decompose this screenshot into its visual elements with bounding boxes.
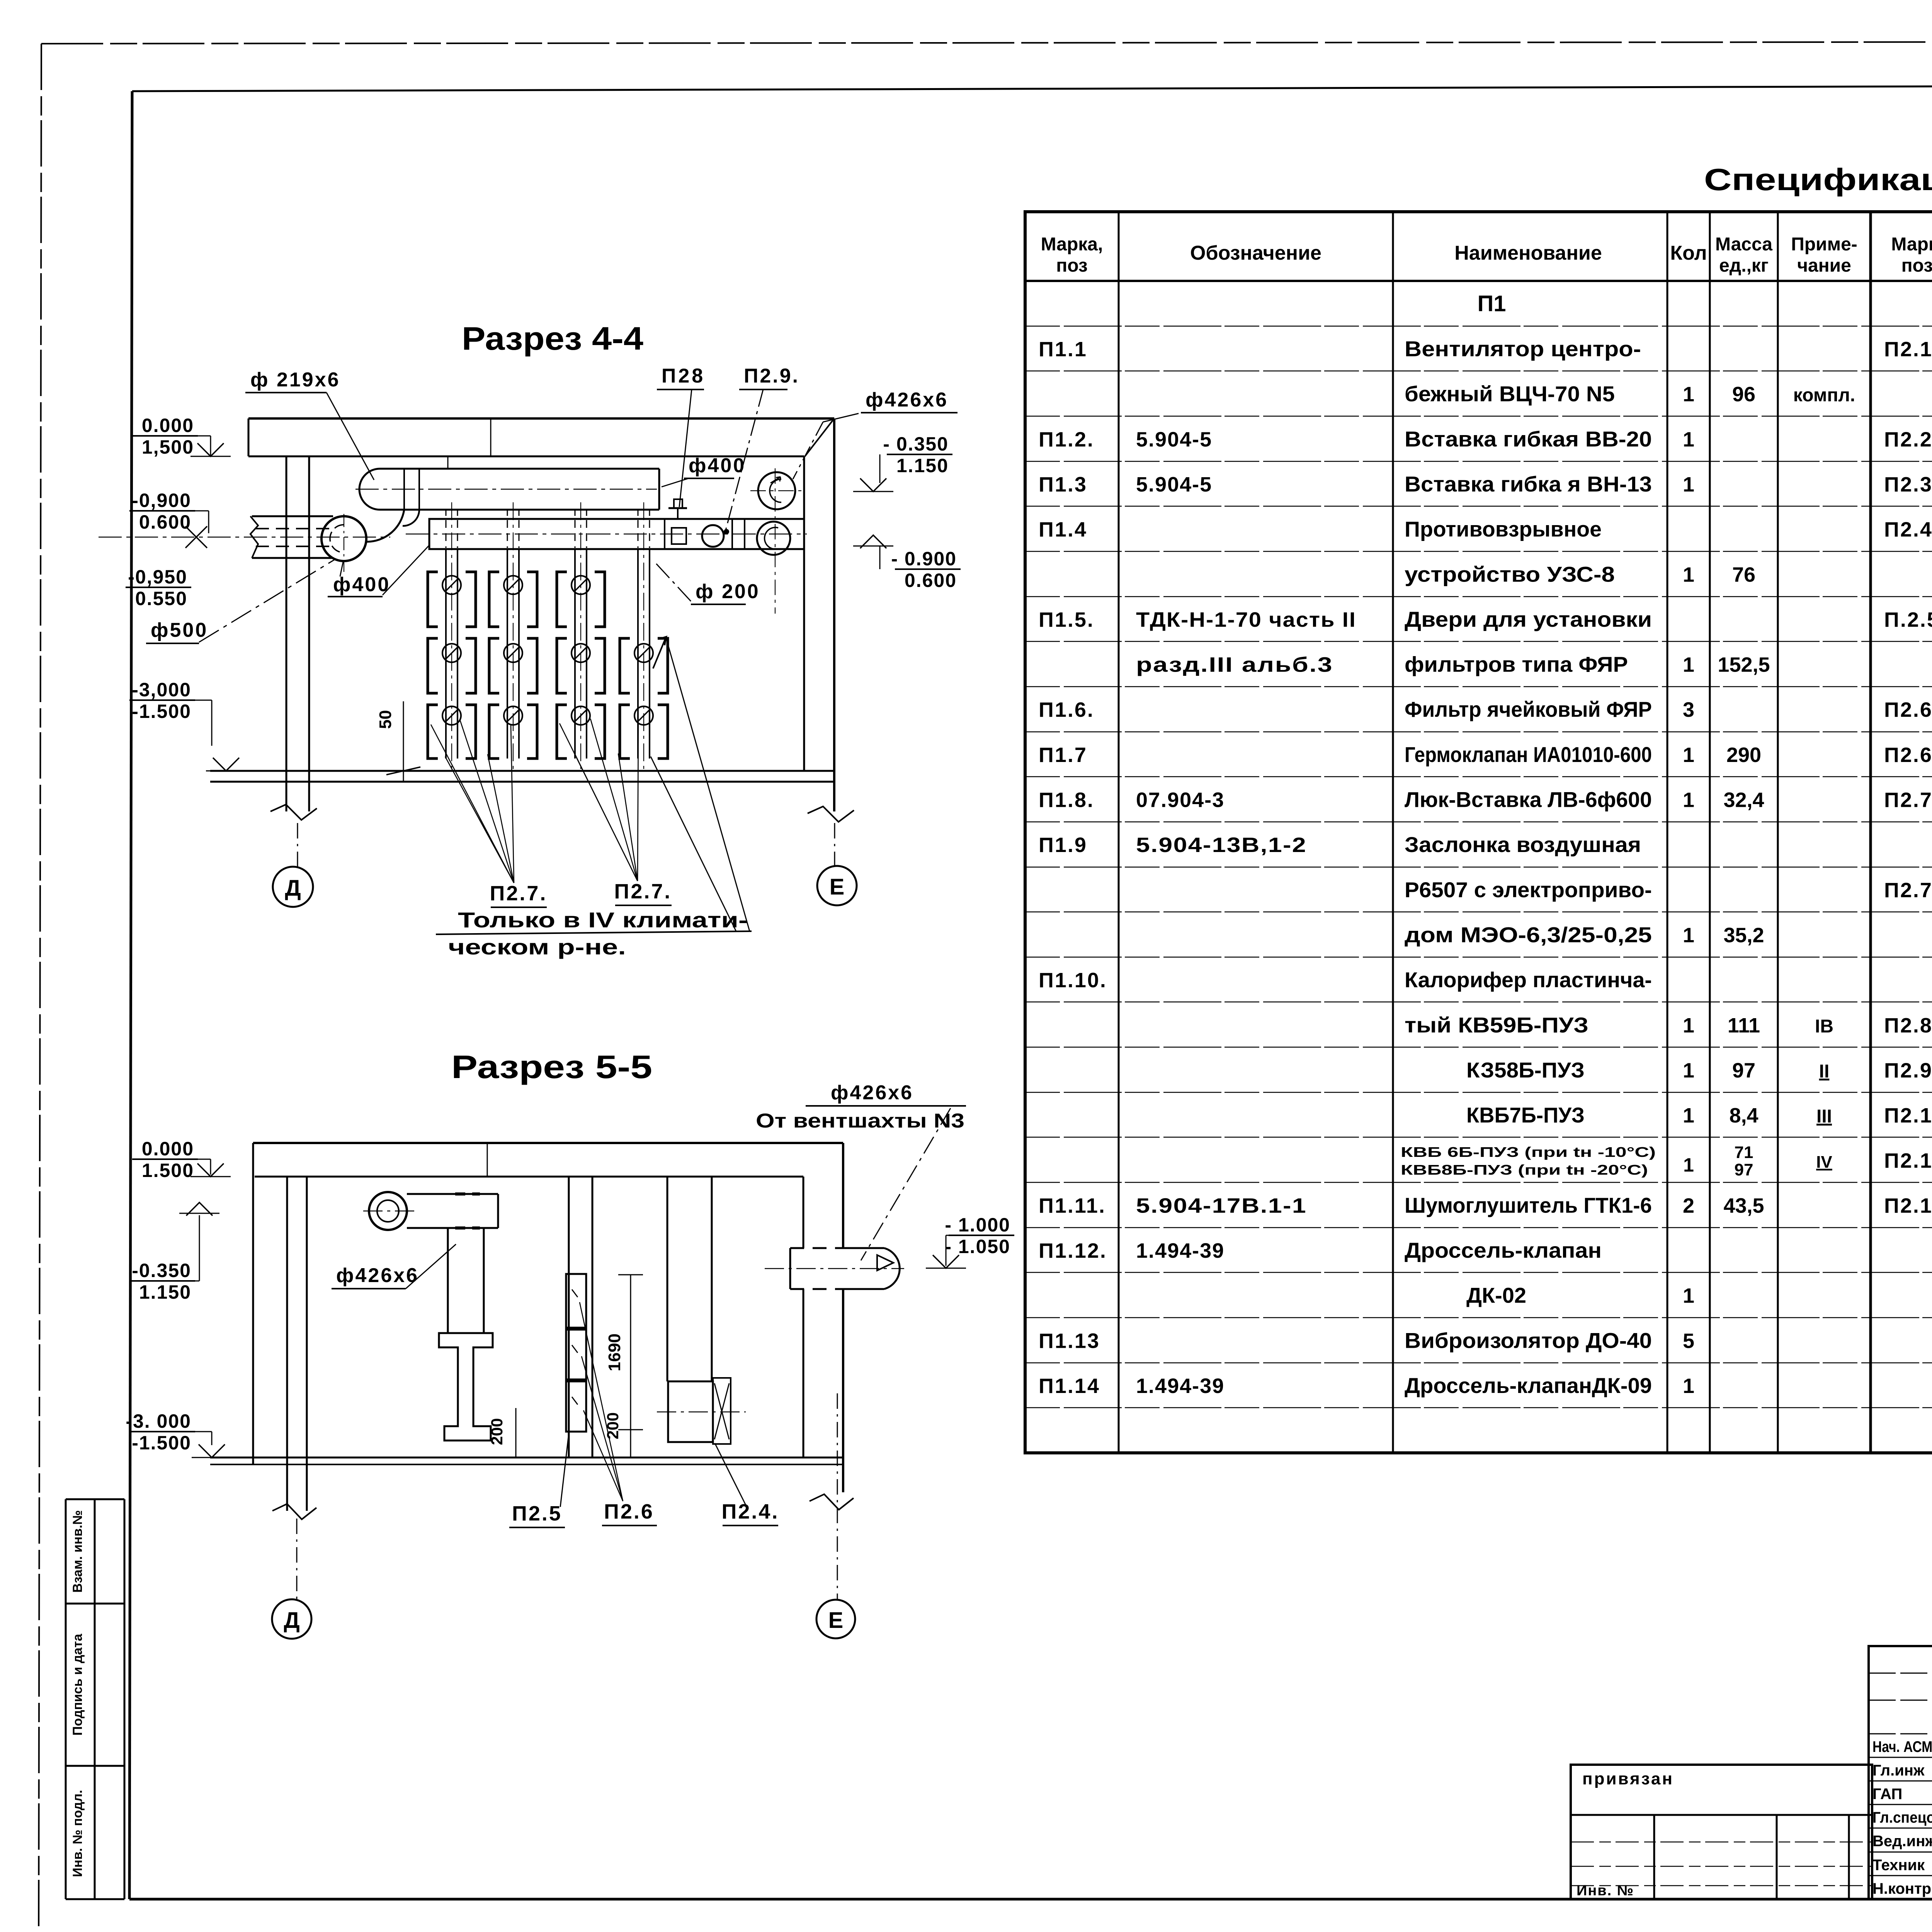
svg-text:1: 1 [1683,923,1694,947]
svg-text:ф426х6: ф426х6 [831,1082,913,1104]
svg-text:2: 2 [1683,1194,1694,1217]
svg-text:Вставка гибкая ВВ-20: Вставка гибкая ВВ-20 [1405,427,1652,451]
s55 right column break symbol [810,1494,854,1510]
svg-text:Разрез 5-5: Разрез 5-5 [451,1049,652,1085]
svg-text:П1.6.: П1.6. [1039,698,1094,721]
page number box line [132,84,1932,91]
svg-text:Спецификация: Спецификация [1704,162,1932,197]
svg-text:ф 200: ф 200 [696,580,760,603]
svg-text:устройство УЗС-8: устройство УЗС-8 [1405,562,1615,586]
svg-text:П1.2.: П1.2. [1039,428,1094,451]
svg-text:Р6507 с электроприво-: Р6507 с электроприво- [1405,878,1652,902]
inner frame bottom [129,1898,1932,1901]
privyazan table [1571,1765,1872,1899]
svg-text:КВБ7Б-ПУЗ: КВБ7Б-ПУЗ [1466,1103,1585,1127]
svg-text:Вед.инж: Вед.инж [1872,1833,1932,1850]
svg-text:Н.контр.: Н.контр. [1872,1880,1932,1897]
svg-text:1: 1 [1683,1284,1694,1308]
svg-text:П2.8.: П2.8. [1884,1014,1932,1037]
svg-text:0.000: 0.000 [142,1138,194,1160]
svg-text:-1.500: -1.500 [132,701,191,722]
svg-text:П1.14: П1.14 [1039,1374,1100,1398]
svg-text:Техник: Техник [1872,1857,1925,1874]
svg-text:П2.6.: П2.6. [1884,698,1932,721]
s44 main collector duct [429,519,804,549]
svg-text:ф400: ф400 [333,573,390,596]
svg-text:71: 71 [1735,1143,1753,1162]
s44 damper valve handle [677,508,679,519]
s55 fan centerline [363,1211,417,1212]
s44 right lower circle duct ф426 [757,522,790,555]
svg-text:П1.9: П1.9 [1039,833,1087,857]
svg-text:П1.4: П1.4 [1039,518,1087,541]
svg-text:Е: Е [828,1608,844,1633]
svg-text:43,5: 43,5 [1723,1194,1764,1217]
svg-text:Е: Е [830,874,845,900]
svg-text:П2.7.: П2.7. [614,880,672,903]
svg-text:-1.500: -1.500 [132,1432,191,1454]
s44 inlet flange circle [321,516,366,561]
svg-text:П2.10.: П2.10. [1884,1104,1932,1127]
s44 ceiling joint tick [490,418,492,456]
s44 left inlet duct ф500 [252,515,333,517]
svg-text:поз.: поз. [1901,255,1932,276]
svg-text:1690: 1690 [605,1333,624,1371]
svg-text:П1.5.: П1.5. [1039,608,1094,631]
s44 top duct [380,468,659,470]
svg-text:П2.12: П2.12 [1884,1194,1932,1217]
svg-text:35,2: 35,2 [1723,923,1764,947]
s44 elbow [366,510,404,542]
svg-text:32,4: 32,4 [1723,789,1764,812]
sheet outer border top [41,41,1932,44]
s55 right wall inner [803,1177,804,1248]
s55 fan scroll rect [407,1193,498,1195]
svg-text:IV: IV [1816,1153,1832,1172]
svg-text:111: 111 [1728,1014,1760,1037]
svg-text:бежный ВЦЧ-70 N5: бежный ВЦЧ-70 N5 [1405,382,1615,406]
svg-text:Только в IV климати-: Только в IV климати- [458,908,748,932]
svg-text:1.500: 1.500 [142,1160,194,1181]
svg-text:КВБ8Б-ПУЗ (при tн -20°С): КВБ8Б-ПУЗ (при tн -20°С) [1401,1162,1648,1178]
spec table row lines [1025,326,1932,327]
s44 left column break symbol [270,804,317,820]
inner frame left [129,91,132,1899]
svg-text:П.2.5: П.2.5 [1884,608,1932,631]
signature table frame [1869,1646,1932,1899]
svg-text:дом МЭО-6,3/25-0,25: дом МЭО-6,3/25-0,25 [1405,922,1652,947]
svg-text:П1.8.: П1.8. [1039,789,1094,812]
svg-text:ДК-02: ДК-02 [1466,1283,1526,1308]
svg-text:Наименование: Наименование [1454,242,1602,264]
svg-text:5.904-17В.1-1: 5.904-17В.1-1 [1136,1194,1307,1217]
s44 right upper circle duct ф426 [758,472,795,509]
svg-text:1: 1 [1683,1374,1694,1398]
s55 axis circle Д [272,1599,311,1639]
left strip boxes [65,1499,67,1899]
svg-text:разд.III альб.3: разд.III альб.3 [1136,653,1333,677]
svg-text:1: 1 [1683,383,1694,406]
svg-text:07.904-3: 07.904-3 [1136,789,1225,812]
spec table outer border [1025,212,1932,1453]
svg-text:Марка: Марка [1891,234,1932,255]
svg-text:-3,000: -3,000 [132,679,191,701]
svg-text:ф 219х6: ф 219х6 [250,369,340,391]
s55 right wall outer [842,1143,844,1248]
spec table header separator [1025,280,1932,282]
svg-text:ГАП: ГАП [1872,1786,1902,1803]
svg-text:П1.7: П1.7 [1039,743,1087,767]
svg-text:От вентшахты N3: От вентшахты N3 [756,1110,964,1132]
svg-text:П28: П28 [662,365,705,387]
svg-text:1: 1 [1683,428,1694,451]
svg-text:компл.: компл. [1793,385,1855,406]
svg-text:фильтров типа ФЯР: фильтров типа ФЯР [1405,652,1628,677]
svg-text:- 1.050: - 1.050 [945,1236,1010,1257]
svg-text:Дроссель-клапан: Дроссель-клапан [1405,1238,1602,1262]
svg-text:Дроссель-клапанДК-09: Дроссель-клапанДК-09 [1405,1373,1652,1398]
svg-text:Кол: Кол [1670,242,1707,264]
svg-text:П1.1: П1.1 [1039,338,1087,361]
s44 ceiling slab bottom [248,456,804,457]
svg-text:П1.10.: П1.10. [1039,969,1107,992]
svg-text:Шумоглушитель ГТК1-6: Шумоглушитель ГТК1-6 [1405,1193,1652,1217]
s44 right wall outer [833,418,835,811]
svg-text:П2.7.: П2.7. [490,882,548,905]
s55 fan inlet flange circle [369,1192,407,1230]
svg-text:- 1.000: - 1.000 [945,1214,1010,1236]
s55 floor lines [210,1457,843,1459]
s44 leader to col4 [666,638,750,931]
s44 inlet duct centerline [99,537,390,538]
spec table column lines [1118,212,1120,1453]
svg-text:П2.9: П2.9 [1884,1059,1932,1082]
svg-text:ф426х6: ф426х6 [336,1264,419,1287]
svg-text:5.904-5: 5.904-5 [1136,428,1212,451]
s44 filter flow circles [442,576,461,594]
s44 right column break symbol [808,806,854,822]
s55 ceiling top [253,1142,843,1144]
svg-text:Д: Д [285,876,301,901]
svg-text:1.494-39: 1.494-39 [1136,1239,1225,1262]
svg-text:1: 1 [1683,473,1694,496]
s44 filter columns ducts [445,549,447,759]
svg-text:152,5: 152,5 [1718,653,1770,677]
svg-text:привязан: привязан [1582,1769,1674,1788]
svg-text:Вставка гибка я ВН-13: Вставка гибка я ВН-13 [1405,472,1652,496]
svg-text:1.494-39: 1.494-39 [1136,1374,1225,1398]
svg-text:1: 1 [1683,1059,1694,1082]
svg-text:ф400: ф400 [689,454,746,477]
svg-text:-0,900: -0,900 [132,490,191,511]
svg-text:П2.4: П2.4 [1884,518,1932,541]
svg-text:290: 290 [1726,743,1761,767]
svg-text:ческом р-не.: ческом р-не. [448,935,626,959]
svg-text:П1.11.: П1.11. [1039,1194,1106,1217]
svg-text:ф426х6: ф426х6 [866,389,948,411]
svg-text:Нач. АСМ-1: Нач. АСМ-1 [1872,1738,1932,1755]
svg-text:П1.3: П1.3 [1039,473,1087,496]
svg-text:50: 50 [376,710,395,729]
svg-text:Инв. № подл.: Инв. № подл. [70,1790,85,1877]
s55 right duct centerline [765,1268,904,1269]
svg-text:П2.7.1: П2.7.1 [1884,879,1932,902]
svg-text:Гермоклапан ИА01010-600: Гермоклапан ИА01010-600 [1405,742,1652,767]
s55 dim 200 left [515,1408,517,1458]
svg-text:3: 3 [1683,698,1694,721]
s44 filter canisters [428,572,438,627]
s44 ceiling slab top [248,417,834,420]
svg-text:1: 1 [1683,743,1694,767]
svg-text:Гл.инж: Гл.инж [1872,1762,1925,1779]
svg-text:Д: Д [284,1608,299,1633]
s44 left wall column [286,456,287,811]
svg-text:5: 5 [1683,1329,1694,1352]
s55 dim 200 right [630,1395,631,1458]
s44 round damper in duct [702,525,724,547]
s44 inlet break mark [250,516,258,558]
signature table rows [1869,1673,1932,1674]
svg-text:Гл.спецов: Гл.спецов [1872,1809,1932,1826]
svg-text:Масса: Масса [1715,234,1772,255]
s44 axis circle Д [273,867,313,907]
svg-text:П2.6: П2.6 [604,1500,654,1523]
svg-text:97: 97 [1735,1160,1753,1179]
s44 col4 arrow [653,637,666,668]
s55 filter canister boxes [566,1274,586,1328]
s55 dim 1690 [630,1275,631,1430]
svg-text:КЗ58Б-ПУЗ: КЗ58Б-ПУЗ [1466,1058,1585,1082]
s55 ceiling bottom [255,1176,803,1178]
svg-text:Инв. №: Инв. № [1577,1883,1634,1899]
svg-text:8,4: 8,4 [1729,1104,1758,1127]
svg-text:Вентилятор центро-: Вентилятор центро- [1405,337,1641,361]
svg-text:-0,950: -0,950 [128,566,187,588]
s44 collector centerline [406,534,807,535]
svg-text:- 0.350: - 0.350 [883,433,949,455]
svg-text:ТДК-Н-1-70 часть II: ТДК-Н-1-70 часть II [1136,608,1356,631]
svg-text:1: 1 [1683,653,1694,677]
svg-text:- 0.900: - 0.900 [891,548,957,570]
s55 ceiling joint tick [487,1143,488,1177]
svg-text:Двери для установки: Двери для установки [1405,607,1652,631]
svg-text:0.600: 0.600 [139,511,191,533]
svg-text:Фильтр ячейковый ФЯР: Фильтр ячейковый ФЯР [1405,697,1652,721]
s44 duct hanger [447,456,449,469]
svg-text:тый КВ59Б-ПУЗ: тый КВ59Б-ПУЗ [1405,1013,1588,1037]
s55 fan down duct [447,1228,449,1333]
s55 axis circle Е [816,1600,855,1638]
svg-text:II: II [1819,1061,1830,1082]
svg-text:Виброизолятор ДО-40: Виброизолятор ДО-40 [1405,1328,1652,1352]
s55 filter column [568,1177,570,1458]
svg-text:П1: П1 [1478,291,1506,316]
s44 axis circle Е [817,866,857,905]
s44 left slab end [248,418,250,456]
svg-text:П2.6.1: П2.6.1 [1884,743,1932,767]
svg-text:Приме-: Приме- [1791,234,1857,255]
svg-text:96: 96 [1732,383,1755,406]
svg-text:-0.350: -0.350 [132,1260,191,1281]
s55 right duct from ventshaft [790,1247,841,1249]
svg-text:97: 97 [1732,1059,1755,1082]
svg-text:1: 1 [1683,1014,1694,1037]
svg-text:Взам. инв.№: Взам. инв.№ [70,1510,85,1593]
s44 damper actuator square [672,528,686,544]
svg-text:1: 1 [1683,563,1694,586]
svg-text:чание: чание [1797,255,1851,276]
svg-text:76: 76 [1732,563,1755,586]
sheet outer border left [39,44,41,1932]
svg-text:П2.1.: П2.1. [1884,338,1932,361]
svg-text:П1.12.: П1.12. [1039,1239,1107,1262]
svg-text:П2.2: П2.2 [1884,428,1932,451]
s55 left column pair [286,1177,288,1511]
svg-text:Разрез 4-4: Разрез 4-4 [462,320,643,357]
svg-text:Заслонка воздушная: Заслонка воздушная [1405,832,1641,857]
svg-text:0.600: 0.600 [905,570,957,591]
svg-text:1.150: 1.150 [896,455,949,476]
svg-text:1.150: 1.150 [139,1281,191,1303]
svg-text:П2.3.: П2.3. [1884,473,1932,496]
s55 heater duct [667,1177,668,1381]
svg-text:Противовзрывное: Противовзрывное [1405,517,1602,541]
svg-text:200: 200 [488,1418,506,1445]
svg-text:1: 1 [1683,1104,1694,1127]
svg-text:П1.13: П1.13 [1039,1329,1100,1352]
s44 right wall inner [803,456,805,771]
svg-text:5.904-5: 5.904-5 [1136,473,1212,496]
svg-text:0.000: 0.000 [142,415,194,436]
svg-text:ф500: ф500 [151,619,208,641]
s55 heater П2.4 device [668,1381,713,1442]
svg-text:5.904-13В,1-2: 5.904-13В,1-2 [1136,833,1307,857]
svg-text:Калорифер пластинча-: Калорифер пластинча- [1405,968,1652,992]
svg-text:ед.,кг: ед.,кг [1719,255,1769,276]
svg-text:КВБ 6Б-ПУЗ (при tн -10°С): КВБ 6Б-ПУЗ (при tн -10°С) [1401,1144,1656,1160]
svg-text:Обозначение: Обозначение [1190,242,1321,264]
svg-text:П2.9.: П2.9. [744,365,799,387]
s44 top duct centerline [355,489,657,490]
svg-text:Марка,: Марка, [1041,234,1103,255]
svg-text:Люк-Вставка ЛВ-6ф600: Люк-Вставка ЛВ-6ф600 [1405,787,1652,812]
svg-text:Подпись и дата: Подпись и дата [70,1633,85,1736]
svg-text:III: III [1816,1106,1832,1127]
svg-text:П2.5: П2.5 [512,1502,562,1525]
s44 floor lines [210,770,834,772]
s55 left column break symbol [272,1504,316,1519]
svg-text:П2.4.: П2.4. [722,1500,779,1523]
svg-text:1: 1 [1683,1154,1694,1176]
s55 fan pedestal [439,1333,493,1440]
s55 left wall outer [252,1143,254,1464]
svg-text:1,500: 1,500 [142,436,194,458]
svg-text:П2.11: П2.11 [1884,1149,1932,1172]
svg-text:П2.7.: П2.7. [1884,789,1932,812]
svg-text:1: 1 [1683,789,1694,812]
svg-text:IВ: IВ [1815,1016,1833,1037]
svg-text:0.550: 0.550 [135,588,187,609]
svg-text:-3. 000: -3. 000 [126,1410,191,1432]
svg-text:поз: поз [1056,255,1088,276]
